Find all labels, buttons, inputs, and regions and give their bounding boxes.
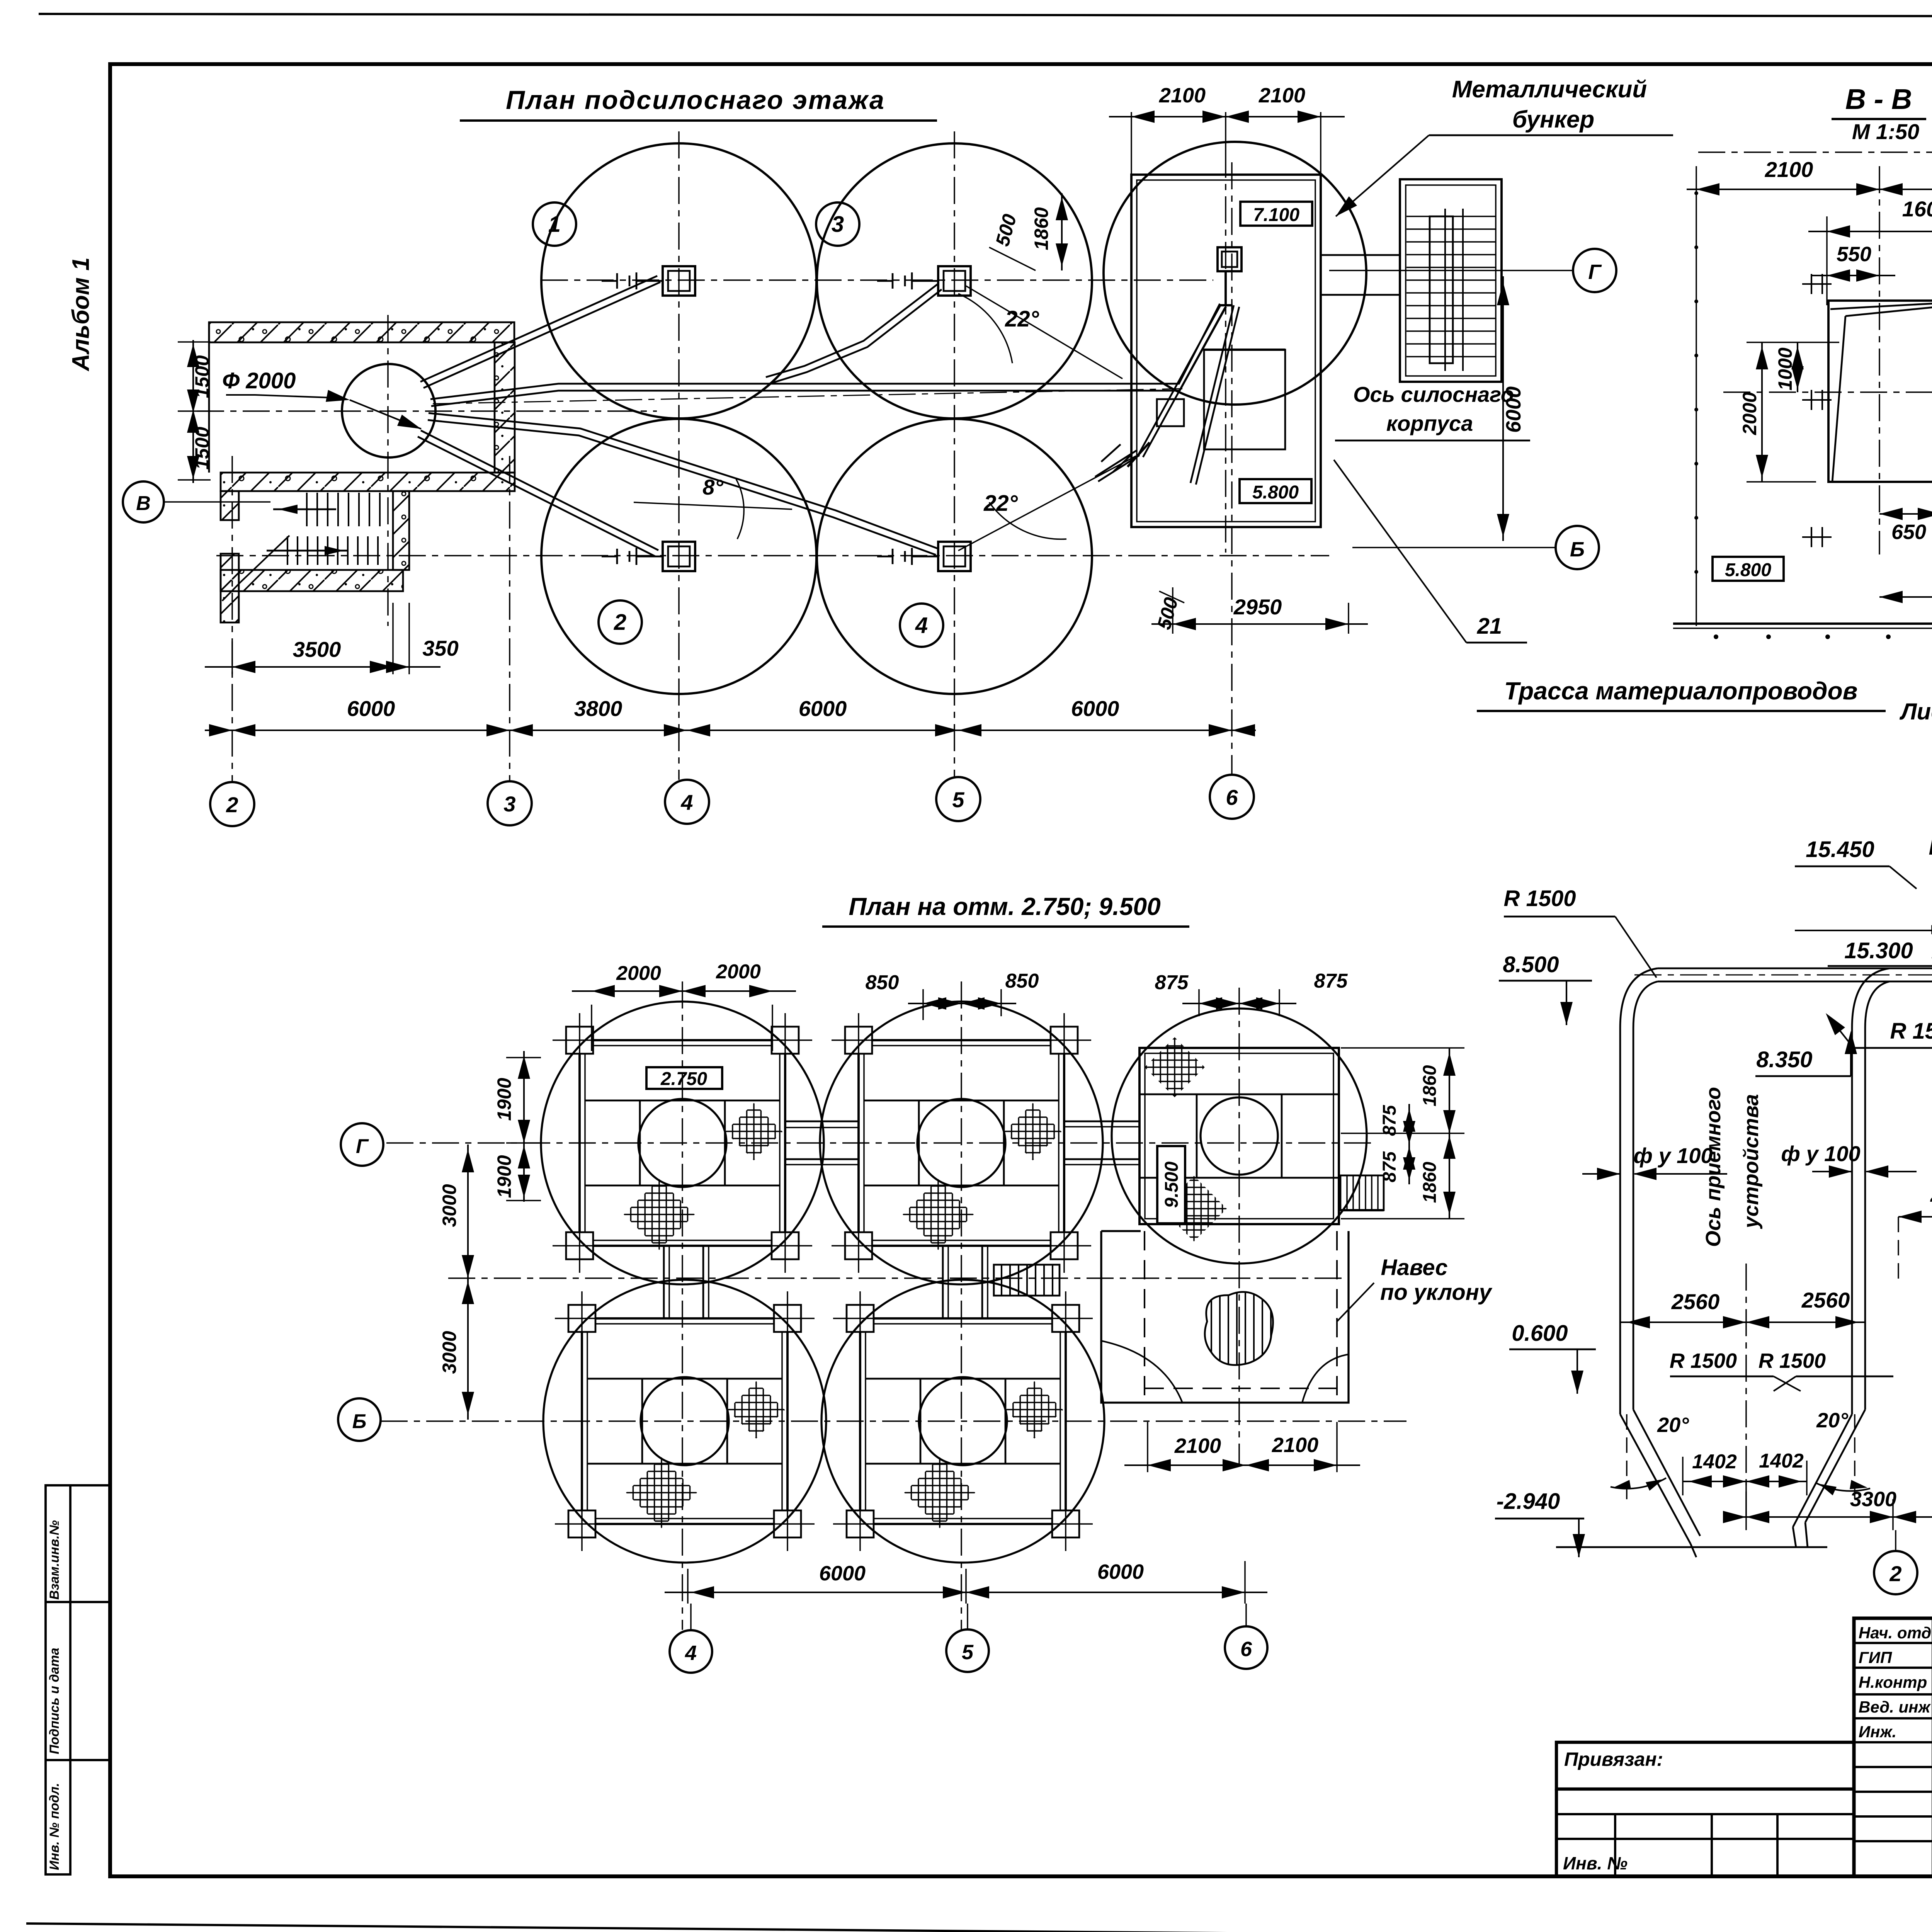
axis line 6 top: [1231, 162, 1233, 776]
dim 2950: [1172, 587, 1173, 634]
hole marks: [1802, 283, 1832, 285]
silo row 1 centerline: [541, 279, 1213, 281]
axis bubble V: [123, 481, 164, 522]
level box 9.500 rot: [1157, 1146, 1185, 1223]
axis G line: [1329, 270, 1572, 271]
silo 3 center box: [938, 266, 971, 296]
svg-text:2100: 2100: [1259, 84, 1305, 107]
svg-text:3800: 3800: [574, 696, 622, 721]
level box 5.800: [1240, 479, 1311, 503]
svg-text:3300: 3300: [1850, 1488, 1896, 1511]
svg-text:1900: 1900: [493, 1155, 515, 1198]
section top centerline: [1698, 151, 1932, 153]
svg-text:В: В: [136, 492, 151, 515]
svg-text:Привязан:: Привязан:: [1564, 1748, 1663, 1770]
axis bubble 5: [936, 777, 980, 821]
funnel ground line: [1556, 1546, 1827, 1548]
border outer top line: [39, 14, 1932, 17]
dim 1600: [1826, 216, 1828, 305]
svg-text:875: 875: [1314, 970, 1348, 992]
svg-text:корпуса: корпуса: [1386, 411, 1473, 435]
stair break line: [241, 536, 289, 582]
axis bubble 6 lower: [1225, 1626, 1267, 1669]
right vertical pipe bend: [1852, 968, 1889, 1028]
dim 3500 350: [231, 641, 233, 674]
axis bubble G: [1573, 249, 1616, 292]
svg-text:22°: 22°: [1005, 306, 1039, 332]
pipe to silo3: [768, 289, 942, 384]
axis bubble G lower: [341, 1123, 383, 1166]
svg-text:Н.контр: Н.контр: [1859, 1673, 1927, 1691]
svg-text:R 1500: R 1500: [1929, 835, 1932, 860]
svg-text:1402: 1402: [1692, 1451, 1737, 1473]
svg-text:21: 21: [1477, 614, 1502, 639]
svg-text:15.450: 15.450: [1806, 837, 1874, 862]
silo row 2 centerline: [216, 555, 1329, 556]
svg-text:15.300: 15.300: [1844, 938, 1913, 963]
axis line 2: [231, 456, 233, 782]
dim 875 875 lower: [1182, 1003, 1296, 1004]
svg-text:650: 650: [1891, 520, 1926, 544]
bunker inner room: [1204, 350, 1285, 449]
svg-text:М 1:50: М 1:50: [1852, 119, 1919, 144]
svg-text:3000: 3000: [439, 1331, 460, 1374]
svg-text:4: 4: [915, 613, 928, 638]
svg-text:План подсилоснаго этажа: План подсилоснаго этажа: [506, 85, 885, 115]
svg-text:ГИП: ГИП: [1859, 1648, 1892, 1667]
pit left corner block: [221, 491, 239, 520]
axis bubble 3: [488, 781, 532, 825]
trassa axis verticals: [1745, 1264, 1747, 1517]
dim 1402 1402: [1683, 1481, 1807, 1482]
section main square: [1828, 301, 1932, 482]
dim 650: [1879, 513, 1932, 515]
svg-text:Ось приемного: Ось приемного: [1702, 1087, 1725, 1247]
lower silo square BL: [582, 1318, 787, 1524]
naves rectangle: [1101, 1231, 1349, 1403]
svg-text:2100: 2100: [1272, 1434, 1318, 1457]
level box 7.100: [1240, 202, 1312, 226]
angle 22 lower: [989, 502, 1066, 539]
angle 22 upper: [958, 294, 1012, 363]
silo circle 3: [817, 143, 1092, 418]
dim 6000 6000 lower: [687, 1569, 689, 1604]
corridors lower plan: [785, 1121, 859, 1122]
pit stair wall: [393, 491, 409, 570]
axis bubble 2 trassa: [1895, 1530, 1896, 1551]
svg-text:1: 1: [548, 212, 561, 237]
bunker small box: [1157, 399, 1184, 426]
lower circle TL: [541, 1002, 824, 1284]
svg-text:3000: 3000: [439, 1184, 460, 1227]
pipe long horizontal: [430, 304, 1220, 399]
section vertical centerline: [1879, 166, 1880, 554]
lower circle BL: [543, 1280, 826, 1563]
svg-text:R 1500: R 1500: [1503, 886, 1576, 911]
pit bottom wall band: [221, 570, 403, 591]
svg-text:Металлический: Металлический: [1452, 76, 1647, 103]
svg-text:3500: 3500: [293, 637, 341, 662]
svg-text:8°: 8°: [702, 475, 723, 499]
svg-text:R 1500: R 1500: [1890, 1019, 1932, 1044]
axis line 3: [509, 456, 510, 782]
svg-text:6000: 6000: [1071, 696, 1119, 721]
bunker center box: [1218, 247, 1242, 271]
level box 5.800 section: [1713, 557, 1784, 581]
section base line: [1673, 622, 1932, 625]
svg-text:Инж.: Инж.: [1859, 1723, 1896, 1741]
lower plan axes: [682, 981, 683, 1630]
svg-text:2560: 2560: [1671, 1289, 1720, 1314]
svg-text:-2.940: -2.940: [1497, 1489, 1560, 1514]
lower silo square BR: [860, 1318, 1066, 1524]
svg-text:3: 3: [832, 212, 844, 237]
svg-text:Г: Г: [356, 1135, 369, 1158]
stairs upper flight: [306, 493, 308, 526]
svg-text:Навес: Навес: [1381, 1255, 1448, 1280]
svg-text:Альбом 1: Альбом 1: [68, 257, 94, 372]
section horizontal centerline: [1723, 391, 1932, 393]
svg-text:1860: 1860: [1031, 207, 1052, 250]
pipe to silo4 (8 deg): [429, 413, 938, 549]
svg-text:2.750: 2.750: [660, 1069, 707, 1089]
left bend R1500: [1620, 968, 1658, 1028]
dim 6000 vertical: [1502, 276, 1504, 541]
svg-text:7.100: 7.100: [1253, 205, 1299, 225]
svg-text:2510: 2510: [1930, 1182, 1932, 1206]
level box 2.750: [646, 1067, 722, 1089]
svg-text:Б: Б: [1570, 538, 1585, 561]
bolt line left: [1696, 166, 1697, 626]
svg-text:5: 5: [952, 787, 964, 812]
dim 2100 2100 bunker: [1131, 112, 1132, 175]
svg-text:1900: 1900: [493, 1078, 515, 1121]
svg-text:1000: 1000: [1774, 347, 1796, 390]
axis bubble 5 lower: [946, 1629, 989, 1672]
svg-text:Ф 2000: Ф 2000: [222, 368, 296, 393]
8 deg angle mark: [634, 502, 792, 509]
svg-text:Подпись и дата: Подпись и дата: [47, 1648, 62, 1754]
svg-text:9.500: 9.500: [1162, 1162, 1182, 1208]
svg-text:6000: 6000: [1097, 1560, 1144, 1583]
svg-text:2000: 2000: [1739, 392, 1760, 435]
funnel left: [1620, 1414, 1690, 1544]
svg-text:Нач. отд: Нач. отд: [1859, 1624, 1931, 1642]
svg-text:2000: 2000: [616, 962, 661, 985]
stairwell: [1400, 179, 1502, 382]
svg-text:0.600: 0.600: [1512, 1321, 1568, 1346]
stairs lower plan: [994, 1265, 1060, 1296]
bunker centerline: [1225, 151, 1226, 553]
svg-text:Трасса материалопроводов: Трасса материалопроводов: [1504, 677, 1858, 705]
svg-text:2000: 2000: [716, 961, 761, 983]
svg-text:2100: 2100: [1174, 1434, 1221, 1458]
naves top left segment: [1101, 1230, 1141, 1232]
silo number 3: [816, 202, 859, 246]
dim 2560 2560: [1620, 1321, 1865, 1323]
stairwell treads: [1406, 216, 1496, 217]
svg-text:5.800: 5.800: [1725, 560, 1771, 580]
svg-text:3: 3: [503, 792, 515, 816]
svg-text:6: 6: [1240, 1638, 1252, 1661]
svg-text:В - В: В - В: [1845, 83, 1912, 115]
axis bubble 6: [1210, 775, 1254, 819]
silo number 2: [599, 600, 642, 644]
svg-text:1500: 1500: [191, 355, 213, 398]
axis line 4 top: [678, 131, 680, 780]
svg-text:бункер: бункер: [1512, 106, 1595, 133]
left attach box: [1556, 1742, 1854, 1789]
svg-text:2: 2: [1889, 1561, 1901, 1586]
svg-text:875: 875: [1155, 971, 1189, 994]
title block: [1854, 1618, 1932, 1876]
svg-text:по уклону: по уклону: [1380, 1280, 1493, 1305]
silo 2 center box: [663, 542, 695, 571]
svg-text:4: 4: [680, 790, 693, 815]
lower silo square TR: [859, 1040, 1064, 1246]
dim 1000 rot: [1797, 342, 1798, 392]
silo circle 4: [817, 419, 1092, 694]
silo number 4: [900, 604, 943, 647]
svg-text:550: 550: [1837, 243, 1871, 266]
5th square: [1139, 1048, 1339, 1224]
border outer bottom line: [26, 1923, 1932, 1932]
axis bubble 4 lower: [670, 1630, 712, 1673]
dim 1800: [1879, 596, 1932, 598]
svg-text:План на отм. 2.750; 9.500: План на отм. 2.750; 9.500: [849, 893, 1160, 920]
svg-text:R 1500: R 1500: [1670, 1349, 1737, 1372]
svg-text:ф у 100: ф у 100: [1781, 1141, 1860, 1166]
axis line 5 top: [954, 131, 955, 777]
svg-text:Ось силоснаго: Ось силоснаго: [1353, 382, 1514, 406]
dim 550: [1812, 275, 1895, 276]
dim 2510: [1898, 1216, 1932, 1218]
dim row 6000 3800 6000 6000: [205, 730, 1256, 731]
dim 3300 9800: [1745, 1481, 1747, 1530]
axis bubble 2: [210, 782, 254, 826]
svg-text:1402: 1402: [1759, 1450, 1804, 1472]
stairs lower flight: [287, 536, 288, 565]
svg-text:1860: 1860: [1420, 1065, 1440, 1106]
left vertical pipe: [1619, 1028, 1621, 1414]
svg-text:20°: 20°: [1657, 1413, 1689, 1437]
svg-text:5.800: 5.800: [1252, 482, 1299, 503]
pit left wall lower: [221, 554, 239, 622]
dim 3000 3000: [467, 1145, 469, 1420]
svg-text:Вед. инж: Вед. инж: [1859, 1698, 1931, 1716]
silo circle 2: [541, 419, 816, 694]
stairs at 5th square right: [1340, 1175, 1384, 1210]
dim 1900 1900: [523, 1051, 525, 1202]
svg-text:2: 2: [614, 610, 626, 635]
pipe to silo1: [420, 276, 657, 382]
pipes near bunker Y: [1143, 307, 1225, 457]
naves corner arcs: [1101, 1341, 1182, 1403]
dim 2100 2100 section: [1687, 189, 1932, 190]
svg-text:6000: 6000: [799, 696, 847, 721]
svg-text:2: 2: [226, 793, 238, 817]
svg-text:ф у 100: ф у 100: [1633, 1143, 1713, 1168]
flanged stub 22deg: [1098, 455, 1139, 481]
svg-text:22°: 22°: [983, 491, 1018, 516]
right rotated dims lower: [1408, 1104, 1410, 1184]
svg-text:Б: Б: [352, 1410, 367, 1433]
axis bubble B2: [1556, 526, 1599, 569]
svg-text:2100: 2100: [1159, 84, 1206, 107]
svg-text:Инв. № подл.: Инв. № подл.: [47, 1783, 62, 1870]
svg-text:1860: 1860: [1420, 1162, 1440, 1203]
lower circle TR: [820, 1002, 1103, 1284]
dim 2100 2100 naves: [1147, 1422, 1148, 1472]
svg-text:350: 350: [422, 636, 458, 660]
left stamp column: [46, 1485, 70, 1874]
svg-text:875: 875: [1379, 1151, 1400, 1182]
lower circle BR: [821, 1280, 1104, 1563]
lower circle 5th: [1112, 1009, 1367, 1264]
naves blob: [1205, 1292, 1273, 1365]
svg-text:850: 850: [1005, 970, 1039, 992]
svg-text:2100: 2100: [1765, 157, 1813, 182]
dim 850 850 lower: [922, 1016, 924, 1020]
svg-text:2950: 2950: [1233, 595, 1282, 619]
lower silo square TL: [580, 1040, 785, 1246]
silo number 1: [533, 202, 576, 246]
corridor bunker-stairwell: [1321, 254, 1400, 256]
axis B2 line: [1352, 547, 1555, 548]
receiving circle F2000: [342, 364, 435, 457]
bunker outer walls: [1131, 175, 1321, 527]
svg-text:1500: 1500: [191, 427, 213, 469]
svg-text:Взам.инв.№: Взам.инв.№: [47, 1520, 62, 1600]
svg-text:1600: 1600: [1902, 197, 1932, 221]
svg-text:Инв. №: Инв. №: [1563, 1853, 1628, 1873]
svg-text:6000: 6000: [347, 696, 395, 721]
dim 1500 1500: [192, 340, 194, 483]
axis bubble B lower: [338, 1398, 381, 1441]
svg-text:5: 5: [962, 1641, 974, 1664]
pit right wall upper: [495, 342, 515, 473]
svg-text:20°: 20°: [1816, 1409, 1848, 1432]
dim 2000 rot: [1761, 342, 1763, 482]
silo 4 center box: [938, 542, 971, 571]
svg-text:4: 4: [685, 1641, 697, 1665]
svg-text:Лист ТХ-3: Лист ТХ-3: [1899, 699, 1932, 724]
pit top wall band: [209, 322, 514, 342]
svg-text:875: 875: [1379, 1105, 1400, 1136]
svg-text:850: 850: [866, 971, 899, 994]
silo circle 1: [541, 143, 816, 418]
pipe to silo2: [421, 430, 658, 550]
svg-text:Г: Г: [1588, 260, 1602, 284]
svg-text:8.350: 8.350: [1756, 1047, 1812, 1072]
svg-text:6: 6: [1226, 785, 1238, 810]
dim 2000 2000 lower: [591, 1005, 592, 1051]
svg-text:R 1500: R 1500: [1759, 1349, 1826, 1372]
svg-text:6000: 6000: [819, 1562, 866, 1585]
silo 1 center box: [663, 266, 695, 296]
horizontal pipe 8.500 level: [1658, 968, 1932, 969]
pit mid wall band: [221, 473, 515, 491]
svg-text:8.500: 8.500: [1503, 952, 1559, 977]
axis bubble 4: [665, 780, 709, 824]
bunker circle 5: [1104, 142, 1366, 405]
funnel right: [1793, 1414, 1852, 1527]
svg-text:устройства: устройства: [1740, 1094, 1763, 1229]
svg-text:2560: 2560: [1801, 1288, 1850, 1312]
elevation line 15.450: [1795, 930, 1932, 931]
